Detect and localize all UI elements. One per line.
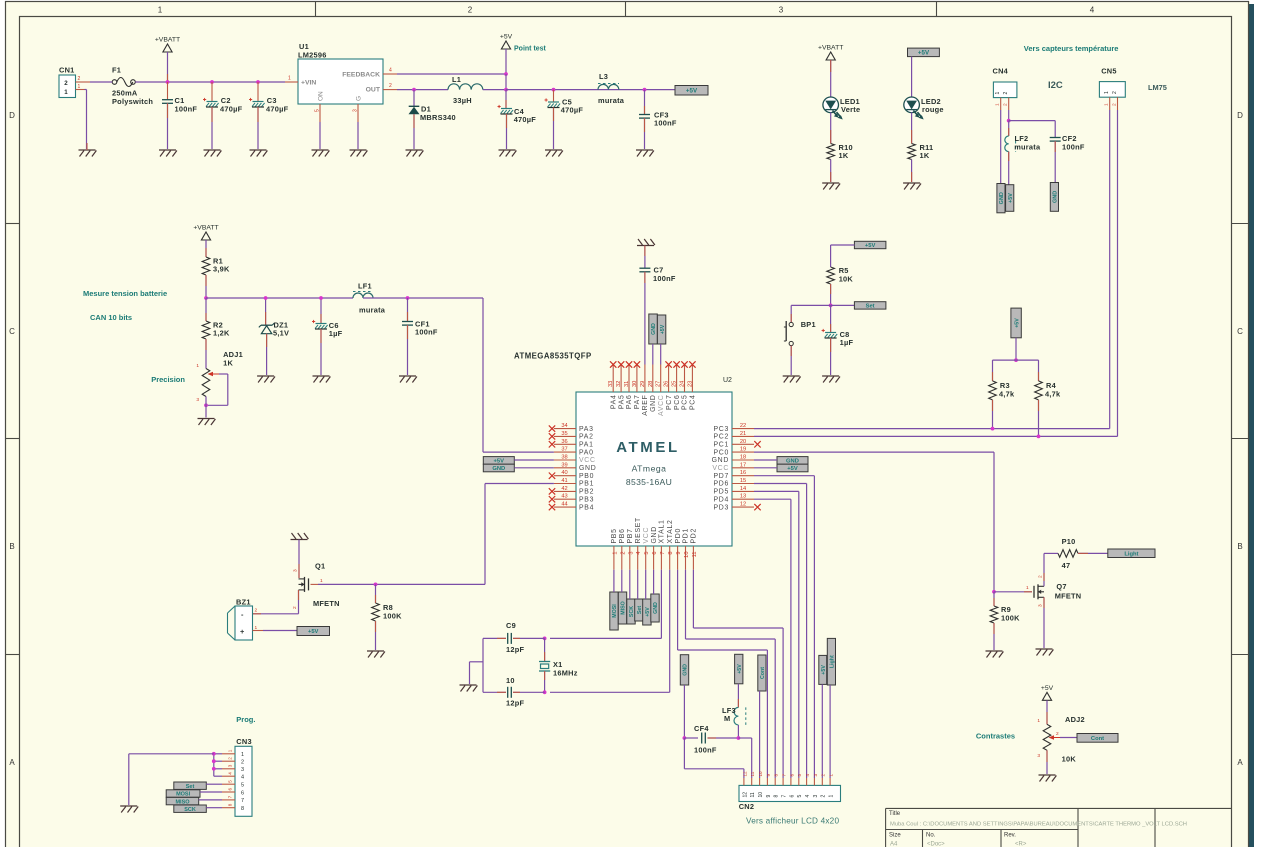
junction pullup node — [1014, 358, 1018, 362]
svg-text:GND: GND — [651, 526, 658, 543]
svg-text:1: 1 — [288, 76, 291, 82]
wire OUT — [397, 89, 448, 91]
connector CN5 — [1099, 67, 1125, 111]
svg-text:L3: L3 — [599, 72, 608, 81]
svg-text:1: 1 — [1037, 718, 1040, 724]
power flag +VBATT top — [155, 37, 180, 53]
svg-text:PA6: PA6 — [626, 395, 633, 410]
svg-text:3: 3 — [779, 6, 784, 15]
wire Light to CN2 — [829, 685, 831, 778]
label Point test — [514, 46, 547, 53]
svg-text:1: 1 — [64, 89, 68, 96]
svg-text:GND: GND — [999, 192, 1005, 204]
svg-text:2: 2 — [292, 606, 298, 609]
wire +5V pullup down — [1015, 338, 1017, 360]
svg-text:4: 4 — [805, 774, 810, 777]
svg-text:4: 4 — [241, 775, 244, 781]
svg-text:100nF: 100nF — [694, 746, 717, 755]
svg-text:3: 3 — [628, 552, 634, 555]
svg-text:11: 11 — [692, 552, 698, 558]
svg-text:1: 1 — [158, 6, 163, 15]
net label GND cf2 — [1050, 183, 1058, 212]
wire U1 pin3 ground — [357, 122, 359, 149]
svg-text:2: 2 — [821, 795, 827, 798]
capacitor C3 — [249, 82, 289, 149]
net label Set bp1 — [854, 302, 886, 310]
svg-text:LF1: LF1 — [358, 282, 372, 291]
inductor LF3 murata — [722, 684, 746, 738]
svg-text:U2: U2 — [723, 377, 732, 384]
svg-text:PD5: PD5 — [713, 489, 729, 496]
resistor R8 100K — [372, 584, 402, 650]
svg-text:1K: 1K — [223, 359, 233, 368]
connector CN1 — [59, 66, 90, 98]
wire GND18 — [754, 459, 777, 461]
svg-text:38: 38 — [561, 455, 567, 461]
wire set pin5 — [206, 783, 222, 785]
svg-text:42: 42 — [561, 486, 567, 492]
wire PD6 down — [754, 484, 807, 779]
ground C4 — [499, 150, 517, 157]
svg-text:Set: Set — [866, 304, 875, 310]
svg-text:CN1: CN1 — [59, 66, 75, 75]
svg-text:PA5: PA5 — [618, 395, 625, 410]
capacitor C7 100nF — [639, 246, 675, 365]
svg-text:MFETN: MFETN — [1055, 592, 1082, 601]
zone numbers top — [158, 6, 1095, 15]
svg-text:40: 40 — [561, 470, 567, 476]
svg-text:Rev.: Rev. — [1004, 833, 1016, 839]
wire LED2 to R11 — [911, 112, 913, 143]
label I2C — [1048, 80, 1063, 91]
svg-text:VCC: VCC — [579, 457, 596, 464]
inductor LF2 murata — [1005, 134, 1041, 152]
net label GND u2gnd — [651, 594, 659, 622]
wire CN4 pin1 to GND — [1000, 110, 1002, 184]
svg-text:1µF: 1µF — [840, 338, 854, 347]
wire PC0 to Q7 — [754, 452, 994, 592]
wire XTAL1 to C9 — [550, 570, 661, 639]
wire PD2 bend — [693, 570, 783, 778]
junction R4 scl — [1037, 435, 1041, 439]
net label +5V lcd — [819, 655, 827, 684]
wire GND6 — [653, 570, 655, 594]
wire +5V to LED2 — [911, 57, 913, 98]
svg-text:PB6: PB6 — [619, 528, 626, 543]
ground C2 — [204, 150, 222, 157]
svg-text:2: 2 — [1112, 103, 1118, 106]
ground DZ1 — [257, 376, 275, 383]
svg-text:GND: GND — [579, 465, 596, 472]
svg-text:1: 1 — [1104, 103, 1110, 106]
svg-text:F1: F1 — [112, 66, 121, 75]
svg-text:3,9K: 3,9K — [213, 265, 230, 274]
svg-text:1: 1 — [1104, 91, 1110, 94]
wire Q1 drain — [293, 540, 300, 579]
regulator U1 LM2596 — [285, 42, 397, 122]
wire ADJ2 to ground — [1046, 750, 1048, 774]
svg-text:2: 2 — [620, 552, 626, 555]
svg-text:470µF: 470µF — [266, 105, 289, 114]
svg-text:Prog.: Prog. — [236, 715, 255, 724]
zone letters left — [9, 111, 15, 767]
svg-text:PA4: PA4 — [610, 395, 617, 410]
svg-text:4: 4 — [1090, 6, 1095, 15]
inductor L1 33uH — [448, 75, 483, 105]
inductor LF1 murata — [353, 282, 386, 315]
svg-text:PA0: PA0 — [579, 449, 594, 456]
svg-text:2: 2 — [78, 76, 81, 82]
junction ADJ1 bottom — [204, 403, 208, 407]
power flag +5V point test — [500, 34, 513, 50]
svg-text:1: 1 — [995, 92, 1001, 95]
svg-text:2: 2 — [64, 80, 68, 87]
svg-text:100nF: 100nF — [175, 105, 198, 114]
wire Q1 source to BZ1 — [253, 590, 299, 614]
ground R11 — [903, 183, 921, 190]
svg-text:Cont: Cont — [760, 667, 766, 679]
diode D1 MBRS340 — [409, 90, 456, 149]
wire C9 left loop — [482, 638, 484, 692]
net label +5V pullups — [1011, 308, 1021, 338]
net label +5V r5 — [854, 241, 886, 249]
svg-text:+5V: +5V — [645, 607, 651, 617]
svg-text:2: 2 — [1038, 575, 1044, 578]
transistor Q7 MFETN — [1034, 582, 1081, 601]
svg-text:murata: murata — [359, 306, 386, 315]
svg-text:C: C — [9, 327, 15, 336]
svg-text:39: 39 — [561, 462, 567, 468]
wire PB6 miso — [621, 570, 623, 592]
net label +5V top — [675, 86, 708, 96]
wire LF3 to CN2 — [738, 738, 751, 778]
svg-text:MBRS340: MBRS340 — [420, 113, 456, 122]
svg-text:37: 37 — [561, 447, 567, 453]
svg-text:VCC: VCC — [643, 527, 650, 544]
svg-text:Size: Size — [889, 833, 901, 839]
svg-text:PD7: PD7 — [713, 473, 729, 480]
svg-text:25: 25 — [672, 381, 678, 387]
wire FEEDBACK — [397, 73, 506, 75]
junction bus C2 — [210, 80, 214, 84]
ground CF3 — [636, 150, 654, 157]
svg-text:1: 1 — [829, 774, 834, 777]
wire point test down — [505, 49, 507, 74]
svg-text:Point test: Point test — [514, 46, 547, 53]
wire mosi pin6 — [200, 791, 222, 793]
U2 left pins — [549, 423, 597, 511]
svg-text:3: 3 — [1038, 604, 1044, 607]
svg-text:18: 18 — [740, 455, 746, 461]
svg-text:33µH: 33µH — [453, 96, 472, 105]
svg-text:PA7: PA7 — [634, 395, 641, 410]
svg-text:13: 13 — [740, 494, 746, 500]
svg-text:Verte: Verte — [841, 105, 860, 114]
zone ticks left — [6, 224, 20, 655]
svg-text:1: 1 — [1026, 585, 1029, 591]
junction R8 — [374, 583, 378, 587]
svg-text:35: 35 — [561, 431, 567, 437]
svg-text:PB3: PB3 — [579, 496, 594, 503]
net label +5V u2vcc — [643, 599, 651, 625]
svg-text:Muba Coul : C:\DOCUMENTS AND S: Muba Coul : C:\DOCUMENTS AND SETTINGS\PA… — [890, 822, 1187, 828]
junction CN4 node — [1007, 119, 1011, 123]
svg-text:12: 12 — [740, 502, 746, 508]
switch BP1 — [784, 305, 816, 375]
svg-text:1: 1 — [78, 84, 81, 90]
wire GND lcd to CN2 — [684, 738, 744, 778]
svg-text:XTAL2: XTAL2 — [667, 519, 674, 543]
junction DZ1 — [264, 296, 268, 300]
svg-text:+: + — [240, 627, 245, 636]
svg-text:10: 10 — [684, 552, 690, 558]
power flag +5V adj2 — [1041, 685, 1054, 701]
wire PC3 to SDA — [754, 428, 1110, 430]
svg-text:10K: 10K — [1062, 755, 1077, 764]
wire VBATT flag down — [167, 52, 169, 82]
svg-text:4,7k: 4,7k — [999, 390, 1015, 399]
net label +5V avcc — [657, 315, 665, 344]
wire R11 ground — [911, 160, 913, 183]
junction D1 — [412, 88, 416, 92]
svg-text:Q7: Q7 — [1056, 582, 1066, 591]
wire PD7 down — [754, 476, 814, 778]
svg-text:2: 2 — [1003, 103, 1009, 106]
ground C6 — [313, 376, 331, 383]
junction R9 gate — [992, 590, 996, 594]
svg-text:24: 24 — [680, 381, 686, 387]
svg-text:100nF: 100nF — [415, 328, 438, 337]
svg-text:GND: GND — [651, 323, 657, 335]
wire battery to PA0 — [483, 298, 554, 452]
svg-text:PC0: PC0 — [713, 449, 729, 456]
ground R10 — [822, 183, 840, 190]
wire Q7 source — [1038, 597, 1045, 648]
net label +5V led2 — [908, 48, 940, 57]
svg-text:8: 8 — [774, 795, 780, 798]
svg-text:MOSI: MOSI — [612, 604, 618, 618]
junction feedback node — [504, 72, 508, 76]
svg-text:15: 15 — [740, 478, 746, 484]
svg-text:9: 9 — [766, 795, 772, 798]
capacitor CF3 100nF — [639, 90, 677, 149]
wire main VBATT bus — [135, 81, 285, 83]
wire GND to GND39 — [514, 467, 554, 469]
svg-text:GND: GND — [492, 466, 505, 472]
ground R8 — [367, 651, 385, 658]
svg-text:GND: GND — [653, 602, 659, 614]
svg-text:PD2: PD2 — [691, 528, 698, 544]
fuse F1 — [112, 66, 153, 107]
wire set row — [791, 304, 854, 306]
svg-text:9: 9 — [766, 774, 771, 777]
svg-text:D: D — [9, 111, 15, 120]
wire PD5 down — [754, 491, 799, 778]
svg-text:10: 10 — [758, 771, 763, 777]
junction CF3 — [643, 88, 647, 92]
svg-text:17: 17 — [740, 462, 746, 468]
junction C6 — [319, 296, 323, 300]
U2 right pins — [712, 423, 761, 511]
svg-text:8: 8 — [774, 774, 779, 777]
crystal X1 16MHz — [539, 638, 578, 692]
svg-text:14: 14 — [740, 486, 746, 492]
connector CN3 — [222, 737, 252, 816]
svg-text:1: 1 — [241, 752, 244, 758]
svg-text:+5V: +5V — [660, 324, 666, 334]
svg-text:3: 3 — [241, 767, 244, 773]
svg-text:SCK: SCK — [184, 807, 196, 813]
svg-text:12: 12 — [742, 771, 747, 777]
svg-text:2: 2 — [389, 83, 392, 89]
svg-text:470µF: 470µF — [220, 105, 243, 114]
resistor R4 4,7k — [1035, 381, 1061, 437]
svg-text:PA1: PA1 — [579, 442, 594, 449]
svg-text:Vers capteurs température: Vers capteurs température — [1024, 44, 1119, 53]
svg-text:<R>: <R> — [1015, 842, 1027, 847]
svg-text:Set: Set — [186, 784, 195, 790]
inductor L3 murata — [598, 72, 625, 105]
svg-text:B: B — [9, 542, 14, 551]
svg-text:3: 3 — [813, 774, 818, 777]
wire +5V lcd to CN2 — [821, 684, 823, 778]
svg-text:PB5: PB5 — [611, 528, 618, 543]
svg-text:3: 3 — [196, 397, 199, 403]
svg-text:OUT: OUT — [366, 87, 381, 94]
svg-text:P10: P10 — [1062, 537, 1076, 546]
svg-text:RESET: RESET — [635, 517, 642, 544]
net label +5V lf3 — [735, 654, 743, 684]
svg-text:1,2K: 1,2K — [213, 329, 230, 338]
ground U1 pin5 — [312, 150, 330, 157]
svg-text:7: 7 — [660, 552, 666, 555]
svg-text:Vers afficheur LCD 4x20: Vers afficheur LCD 4x20 — [746, 817, 839, 826]
ground ADJ2 — [1039, 775, 1057, 782]
power flag +VBATT measure — [193, 225, 218, 241]
svg-text:5: 5 — [228, 780, 233, 783]
svg-text:PD6: PD6 — [713, 481, 729, 488]
svg-text:5: 5 — [797, 795, 803, 798]
svg-text:+VBATT: +VBATT — [155, 37, 180, 44]
net label GND gnd-left — [483, 464, 514, 472]
svg-text:GND: GND — [712, 457, 729, 464]
svg-text:PC3: PC3 — [713, 426, 729, 433]
svg-text:100K: 100K — [383, 612, 402, 621]
svg-text:murata: murata — [598, 96, 625, 105]
svg-text:8: 8 — [668, 552, 674, 555]
wire gate to Q7 — [994, 585, 1032, 592]
ground CF1 — [399, 376, 417, 383]
connector CN4 — [993, 67, 1017, 111]
wire CN5 pin1 long — [1109, 110, 1111, 429]
zone letters right — [1237, 111, 1243, 767]
svg-text:murata: murata — [1014, 143, 1041, 152]
svg-text:470µF: 470µF — [561, 106, 584, 115]
wire VCC5 — [645, 570, 647, 599]
svg-text:2: 2 — [468, 6, 473, 15]
wire U1 pin5 ground — [319, 122, 321, 149]
wire ADJ1 wiper loop — [206, 374, 228, 405]
svg-text:LM75: LM75 — [1148, 83, 1167, 92]
svg-text:PB0: PB0 — [579, 473, 594, 480]
capacitor CF4 100nF — [684, 724, 738, 755]
wire +5V to ADJ2 — [1037, 700, 1047, 724]
svg-text:CN4: CN4 — [993, 67, 1009, 76]
resistor R2 — [202, 298, 230, 339]
wire GND lcd down — [683, 685, 685, 738]
ground CN3 — [120, 806, 138, 813]
svg-text:1: 1 — [228, 749, 233, 752]
capacitor CF1 100nF — [402, 298, 438, 375]
svg-text:ATMEL: ATMEL — [616, 439, 680, 456]
junction C10 X1 — [543, 690, 547, 694]
svg-text:+5V: +5V — [1008, 193, 1014, 203]
ground crystal — [460, 685, 478, 692]
wire L1 to node — [483, 89, 506, 91]
wire R1 to node — [205, 275, 207, 298]
svg-text:4: 4 — [636, 552, 642, 555]
svg-text:PC4: PC4 — [690, 395, 697, 411]
svg-text:Contrastes: Contrastes — [976, 732, 1015, 741]
svg-text:6: 6 — [789, 774, 794, 777]
svg-text:A: A — [9, 758, 15, 767]
wire CN4 pin2 — [1008, 110, 1010, 121]
svg-text:PC2: PC2 — [713, 434, 729, 441]
svg-text:1µF: 1µF — [329, 329, 343, 338]
svg-text:10: 10 — [758, 792, 764, 798]
svg-text:6: 6 — [789, 795, 795, 798]
svg-text:2: 2 — [255, 608, 258, 614]
capacitor C6 1uF — [312, 298, 343, 375]
svg-text:PC5: PC5 — [682, 395, 689, 411]
wire VBATT to LED1 — [830, 60, 832, 97]
svg-text:+5V: +5V — [686, 88, 698, 95]
svg-text:PD0: PD0 — [675, 528, 682, 544]
svg-text:470µF: 470µF — [514, 115, 537, 124]
net label MOSI — [610, 592, 618, 630]
net label GND cn4-1 — [997, 184, 1005, 213]
svg-text:3: 3 — [353, 109, 359, 112]
svg-text:PB4: PB4 — [579, 504, 594, 511]
svg-text:23: 23 — [687, 381, 693, 387]
svg-text:Title: Title — [889, 811, 901, 817]
svg-text:D: D — [1237, 111, 1243, 120]
net label MISO — [618, 592, 626, 624]
capacitor C4 470uF — [498, 90, 537, 149]
wire battery bus — [206, 297, 353, 299]
svg-text:I2C: I2C — [1048, 80, 1063, 91]
svg-text:+5V: +5V — [1041, 685, 1054, 692]
net label MISO cn3 — [166, 797, 199, 805]
svg-text:29: 29 — [640, 381, 646, 387]
svg-text:8535-16AU: 8535-16AU — [626, 477, 672, 487]
U2 top pins — [608, 361, 696, 416]
svg-text:PC6: PC6 — [674, 395, 681, 411]
potentiometer ADJ2 — [976, 715, 1085, 764]
wire LF1 right — [363, 297, 483, 299]
svg-text:2: 2 — [1056, 731, 1059, 737]
title block text — [889, 811, 1187, 847]
wire CN4 node to CF2 — [1009, 121, 1055, 138]
svg-text:6: 6 — [241, 790, 244, 796]
capacitor C9 12pF — [483, 621, 545, 654]
svg-text:+5V: +5V — [865, 243, 876, 249]
net label GND lcd — [680, 655, 688, 685]
label U2 — [723, 377, 732, 384]
capacitor C2 — [203, 82, 243, 149]
svg-text:2: 2 — [1003, 92, 1009, 95]
resistor R11 — [908, 143, 934, 160]
